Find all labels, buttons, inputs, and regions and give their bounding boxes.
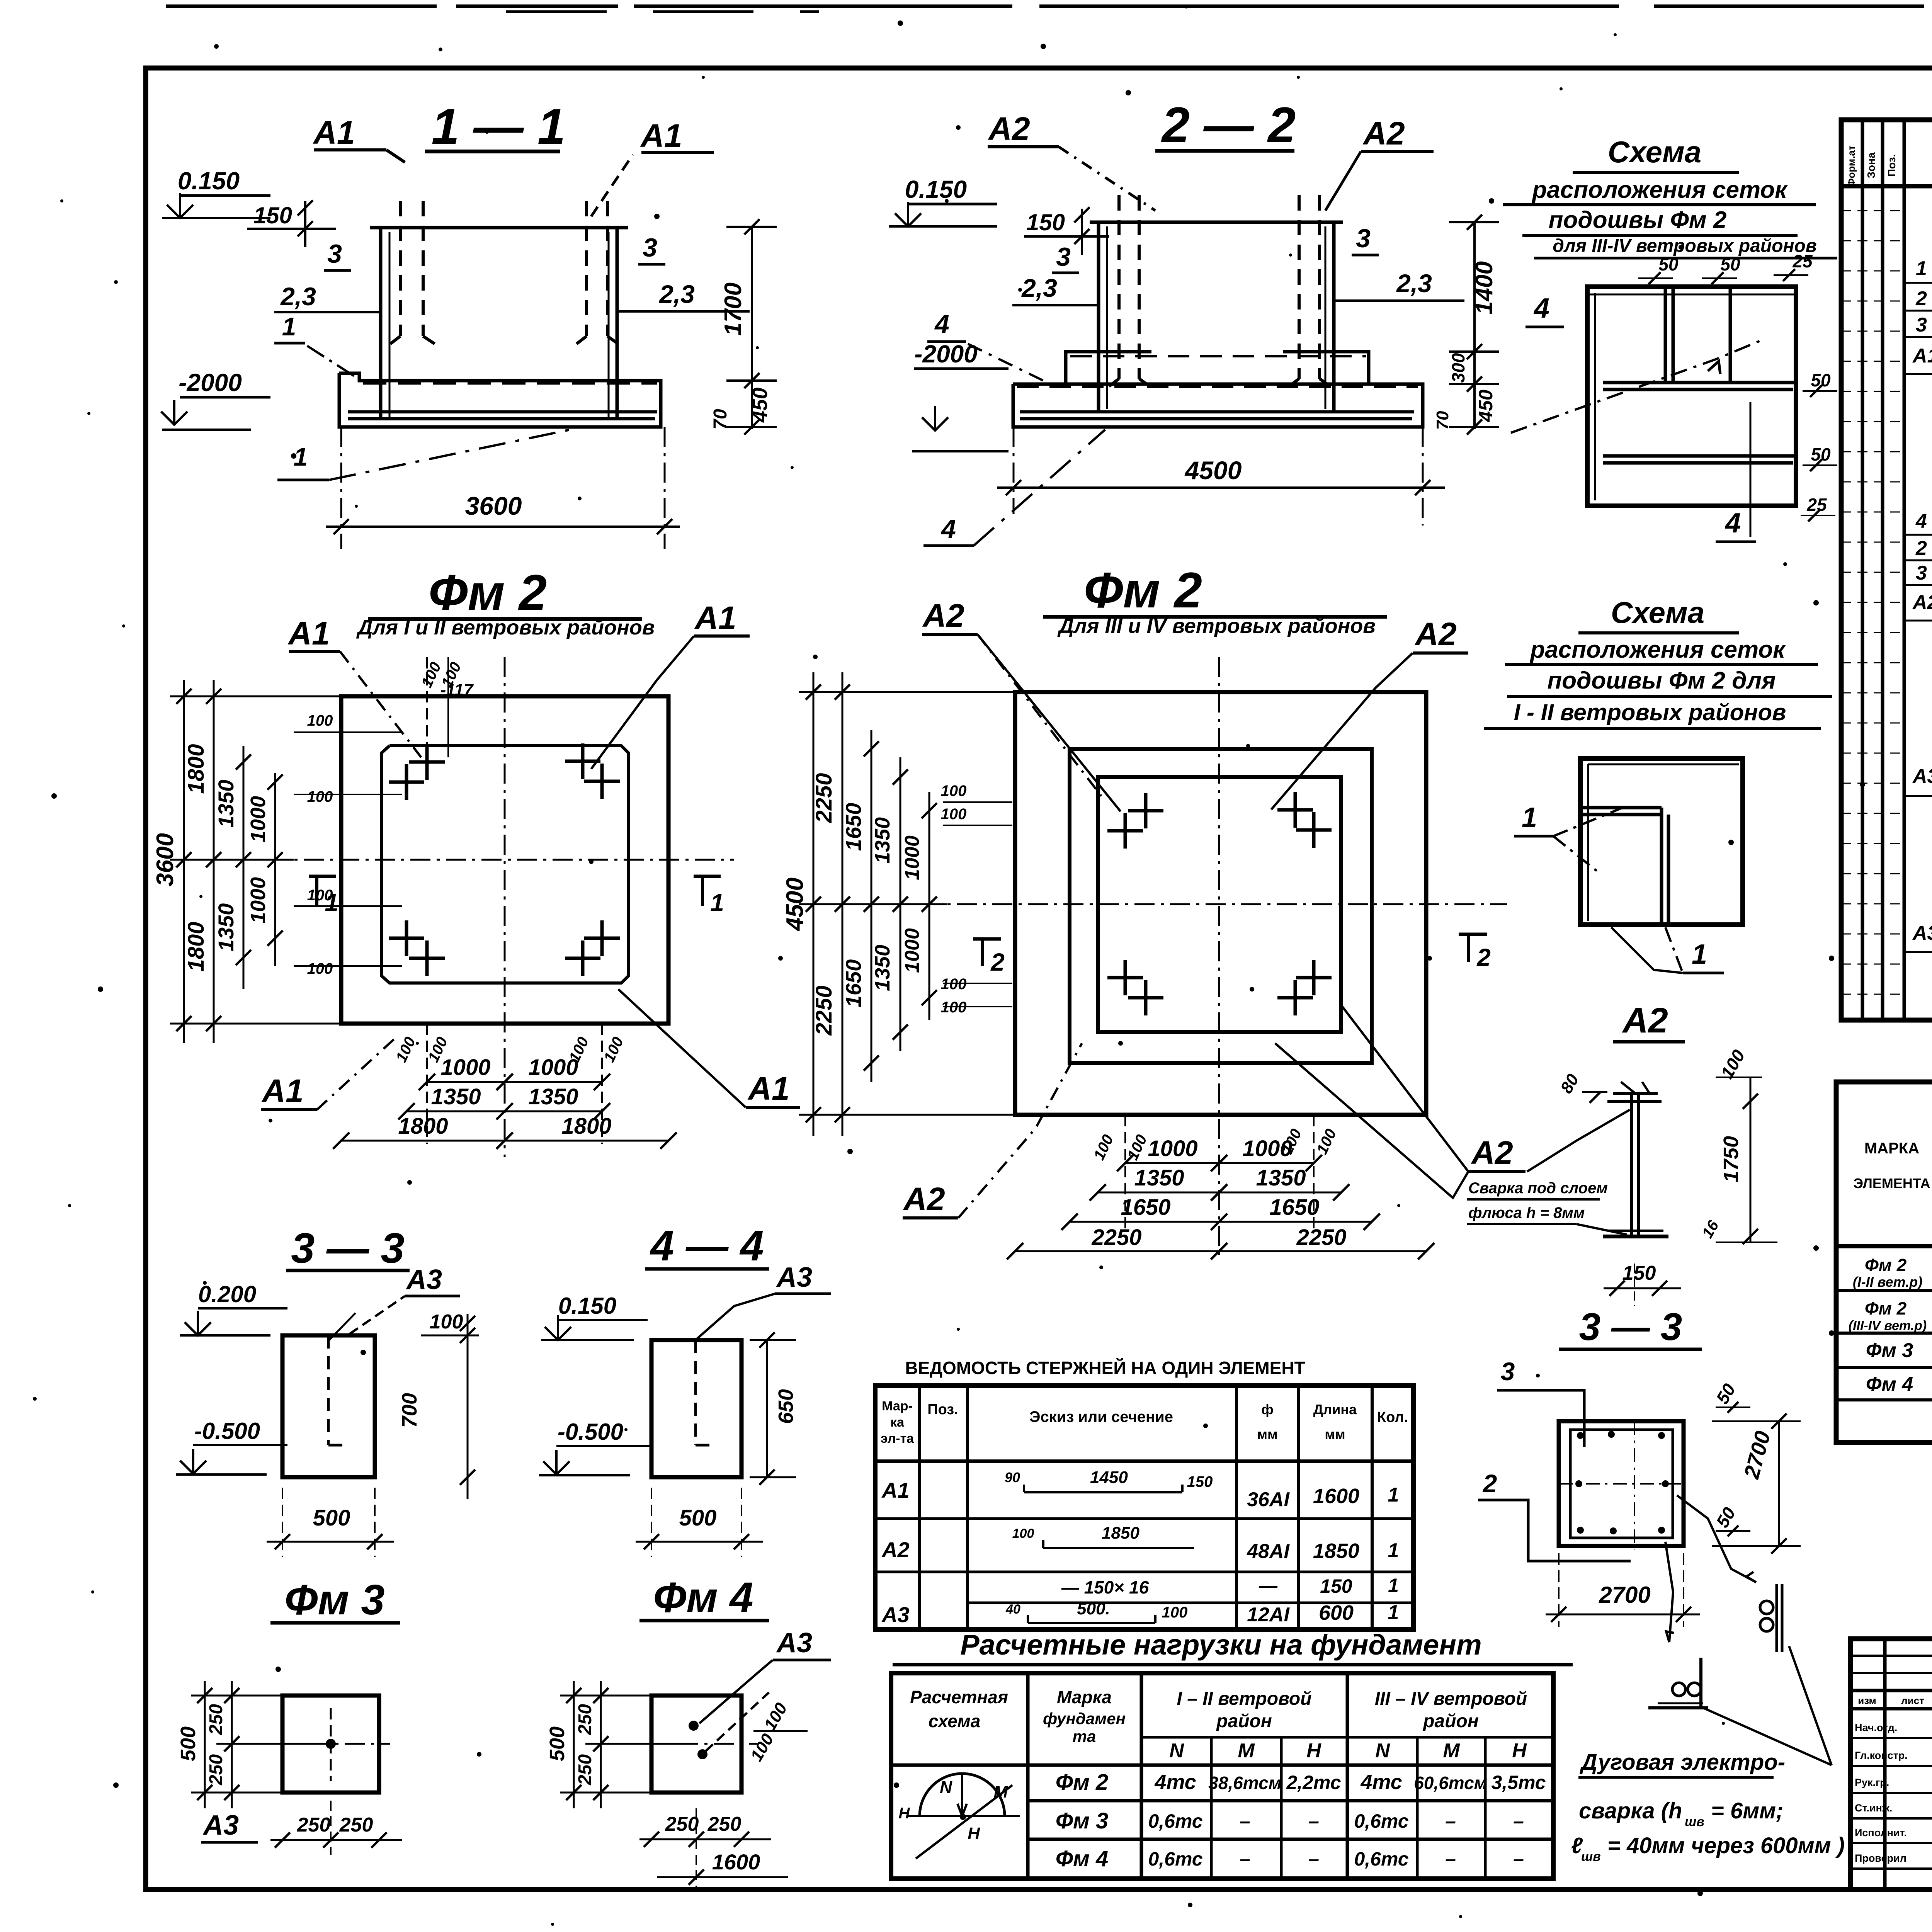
svg-text:700: 700 xyxy=(398,1393,421,1428)
svg-text:M: M xyxy=(1443,1740,1460,1762)
svg-text:500: 500 xyxy=(546,1726,569,1761)
svg-text:3600: 3600 xyxy=(465,492,522,520)
svg-text:250: 250 xyxy=(665,1813,699,1835)
spec table thin row lines xyxy=(1841,210,1904,211)
plan Fm2 III-IV left dim stack xyxy=(813,672,815,1136)
svg-text:2,2тс: 2,2тс xyxy=(1286,1772,1341,1793)
svg-text:2250: 2250 xyxy=(811,985,837,1036)
plan Fm2 I-II bolt crosses top-right xyxy=(565,760,600,763)
svg-text:1350: 1350 xyxy=(1256,1165,1306,1190)
svg-text:A1: A1 xyxy=(1912,345,1932,367)
svg-text:1000: 1000 xyxy=(901,835,923,880)
plan Fm2 III-IV inner square xyxy=(1098,777,1341,1032)
svg-text:1350: 1350 xyxy=(214,780,238,828)
svg-text:изм: изм xyxy=(1858,1695,1876,1706)
svg-text:район: район xyxy=(1422,1711,1479,1731)
svg-text:1350: 1350 xyxy=(214,903,238,952)
plan Fm4 center mark xyxy=(678,1743,757,1745)
section 4-4 dim 650 xyxy=(766,1340,768,1477)
svg-text:100: 100 xyxy=(941,806,967,823)
svg-text:Зона: Зона xyxy=(1865,152,1877,179)
svg-text:2250: 2250 xyxy=(811,773,837,823)
svg-text:H: H xyxy=(1512,1740,1527,1762)
svg-text:4: 4 xyxy=(940,514,956,544)
svg-text:4500: 4500 xyxy=(1184,456,1242,485)
svg-text:Схема: Схема xyxy=(1611,595,1704,629)
svg-text:3: 3 xyxy=(1356,224,1371,253)
svg-text:2: 2 xyxy=(1482,1469,1497,1498)
svg-text:подошвы Фм 2 для: подошвы Фм 2 для xyxy=(1547,667,1776,694)
svg-text:40: 40 xyxy=(1005,1602,1020,1617)
svg-text:250: 250 xyxy=(339,1814,373,1836)
svg-text:250: 250 xyxy=(297,1814,331,1836)
svg-text:3: 3 xyxy=(1916,314,1927,336)
svg-text:Расчетные нагрузки на фунда: Расчетные нагрузки на фундамент xyxy=(960,1629,1481,1661)
plan Fm2 I-II bolt crosses bottom-left xyxy=(389,937,424,940)
svg-text:1000: 1000 xyxy=(247,796,270,842)
svg-text:Мар-: Мар- xyxy=(882,1399,913,1413)
svg-text:для III-IV ветровых районов: для III-IV ветровых районов xyxy=(1553,236,1817,256)
svg-text:0,6тс: 0,6тс xyxy=(1148,1810,1202,1832)
svg-text:шв: шв xyxy=(1581,1849,1601,1864)
svg-text:1350: 1350 xyxy=(528,1084,578,1109)
svg-text:1650: 1650 xyxy=(1121,1195,1170,1220)
schema III-IV grid xyxy=(1587,287,1796,506)
section 2-2 footing hidden lines xyxy=(1070,355,1366,357)
svg-text:МАРКА: МАРКА xyxy=(1864,1140,1919,1157)
section 2-2 anchor bolts dashed right xyxy=(1298,195,1301,379)
svg-text:Фм 2: Фм 2 xyxy=(1084,562,1202,618)
svg-text:A2: A2 xyxy=(1622,1001,1668,1040)
svg-text:1600: 1600 xyxy=(1313,1485,1359,1508)
svg-text:Сварка под слоем: Сварка под слоем xyxy=(1468,1180,1608,1197)
svg-text:250: 250 xyxy=(206,1754,226,1786)
svg-text:1000: 1000 xyxy=(1148,1136,1197,1161)
svg-text:1: 1 xyxy=(1692,939,1707,970)
svg-text:фундамен: фундамен xyxy=(1043,1709,1126,1728)
svg-text:A3: A3 xyxy=(1912,922,1932,944)
svg-text:150: 150 xyxy=(253,202,292,228)
plan Fm2 I-II section mark 1 left xyxy=(309,875,336,878)
svg-text:A1: A1 xyxy=(287,615,330,651)
section 1-1 footing xyxy=(339,373,661,427)
svg-text:A3: A3 xyxy=(1912,765,1932,787)
svg-text:1: 1 xyxy=(1388,1601,1399,1624)
svg-text:1450: 1450 xyxy=(1090,1468,1128,1487)
detail 3-3 right dims 50 2700 50 xyxy=(1778,1421,1780,1546)
svg-text:2: 2 xyxy=(1915,287,1927,310)
svg-text:1350: 1350 xyxy=(871,817,894,864)
plan Fm3 center mark xyxy=(309,1743,390,1745)
svg-text:1800: 1800 xyxy=(184,744,209,794)
svg-text:ВЕДОМОСТЬ СТЕРЖНЕЙ НА ОДИН ЭЛЕ: ВЕДОМОСТЬ СТЕРЖНЕЙ НА ОДИН ЭЛЕМЕНТ xyxy=(905,1358,1305,1378)
detail A2 dim 1750 xyxy=(1750,1077,1752,1242)
section 3-3 rect xyxy=(282,1335,375,1477)
detail 3-3 square inner xyxy=(1570,1430,1673,1538)
svg-text:Поз.: Поз. xyxy=(927,1401,958,1418)
svg-text:Фм 4: Фм 4 xyxy=(1056,1846,1109,1871)
svg-text:-0.500: -0.500 xyxy=(194,1418,260,1444)
svg-text:A2: A2 xyxy=(1414,616,1456,652)
svg-text:2,3: 2,3 xyxy=(658,280,695,308)
svg-text:250: 250 xyxy=(575,1704,595,1735)
loads table grid xyxy=(891,1673,1553,1879)
svg-text:Рук.гр.: Рук.гр. xyxy=(1855,1777,1889,1788)
svg-text:ЭЛЕМЕНТА: ЭЛЕМЕНТА xyxy=(1853,1175,1930,1191)
svg-text:подошвы Фм 2: подошвы Фм 2 xyxy=(1549,207,1727,233)
svg-text:4: 4 xyxy=(934,310,949,339)
svg-text:A1: A1 xyxy=(313,114,355,151)
svg-text:мм: мм xyxy=(1257,1426,1277,1442)
svg-text:2,3: 2,3 xyxy=(1396,269,1432,298)
svg-text:расположения сеток: расположения сеток xyxy=(1531,177,1788,203)
svg-text:1000: 1000 xyxy=(247,877,270,923)
schema I-II grid xyxy=(1580,759,1743,925)
svg-text:Дуговая электро-: Дуговая электро- xyxy=(1579,1750,1785,1775)
plan Fm2 III-IV bolt crosses xyxy=(1128,809,1163,813)
detail A2 leader from plan label to beam xyxy=(1527,1110,1630,1172)
svg-text:A3: A3 xyxy=(406,1264,442,1295)
spec table outer grid xyxy=(1841,120,1932,1020)
svg-text:N: N xyxy=(1169,1740,1184,1762)
svg-text:50: 50 xyxy=(1720,254,1740,274)
svg-text:Кол.: Кол. xyxy=(1377,1409,1408,1425)
svg-text:0,6тс: 0,6тс xyxy=(1354,1848,1408,1870)
section 1-1 pedestal xyxy=(379,228,383,419)
svg-text:I - II ветровых районов: I - II ветровых районов xyxy=(1514,699,1786,725)
svg-text:A3: A3 xyxy=(881,1602,910,1627)
svg-text:500: 500 xyxy=(177,1726,200,1761)
plan Fm2 I-II section mark 1 right xyxy=(694,875,721,878)
svg-text:500.: 500. xyxy=(1077,1599,1110,1618)
weld detail arrow 2 xyxy=(1665,1542,1673,1642)
schema III-IV leader dashdot xyxy=(1511,340,1762,433)
plan Fm4 left dims xyxy=(573,1681,575,1808)
svg-text:300: 300 xyxy=(1448,353,1468,383)
svg-text:100: 100 xyxy=(1162,1604,1188,1621)
svg-text:схема: схема xyxy=(929,1711,981,1731)
weld pointer lines xyxy=(1703,1708,1832,1765)
svg-text:Проверил: Проверил xyxy=(1855,1852,1906,1864)
section 2-2 footing two tiers xyxy=(1066,352,1151,384)
plan Fm2 I-II outer square xyxy=(341,696,668,1024)
svg-text:A1: A1 xyxy=(747,1070,789,1107)
svg-text:Форм.ат: Форм.ат xyxy=(1845,145,1857,187)
svg-text:A3: A3 xyxy=(776,1262,812,1293)
svg-text:2250: 2250 xyxy=(1296,1225,1346,1250)
svg-text:1350: 1350 xyxy=(1134,1165,1184,1190)
plan Fm2 I-II bottom dims xyxy=(426,1024,428,1144)
svg-text:-2000: -2000 xyxy=(914,340,978,368)
svg-text:1650: 1650 xyxy=(841,959,866,1008)
svg-text:ф: ф xyxy=(1261,1401,1274,1417)
section 1-1 bottom dim 3600 xyxy=(340,427,342,549)
section 1-1 footing hidden top line xyxy=(363,382,657,385)
plan Fm4 square xyxy=(651,1696,742,1793)
svg-text:1600: 1600 xyxy=(712,1850,760,1874)
plan Fm2 I-II bolt crosses bottom-right xyxy=(565,957,600,960)
plan Fm2 III-IV section mark 2 left xyxy=(973,937,1001,941)
plan Fm2 III-IV outer square xyxy=(1015,692,1426,1115)
section 1-1 anchor bolts dashed right xyxy=(585,201,588,336)
svg-text:лист: лист xyxy=(1901,1695,1924,1706)
svg-text:флюса h = 8мм: флюса h = 8мм xyxy=(1468,1204,1585,1221)
svg-text:Фм 2: Фм 2 xyxy=(429,564,547,621)
svg-text:1: 1 xyxy=(1388,1484,1399,1506)
svg-text:Фм 2: Фм 2 xyxy=(1056,1770,1109,1795)
svg-text:A2: A2 xyxy=(922,597,964,634)
weld detail arrow from square xyxy=(1677,1495,1756,1582)
svg-text:100: 100 xyxy=(307,887,333,904)
svg-text:мм: мм xyxy=(1325,1426,1345,1442)
svg-text:2 — 2: 2 — 2 xyxy=(1161,97,1296,153)
svg-text:12AІ: 12AІ xyxy=(1247,1604,1290,1626)
title block outer xyxy=(1850,1639,1932,1889)
svg-text:2250: 2250 xyxy=(1091,1225,1141,1250)
svg-text:1850: 1850 xyxy=(1102,1524,1139,1543)
svg-text:A1: A1 xyxy=(261,1073,303,1109)
weld detail corner angle with circles xyxy=(1648,1706,1708,1709)
section 3-3 bolt dashed xyxy=(327,1335,330,1445)
svg-text:90: 90 xyxy=(1005,1469,1020,1485)
svg-text:1750: 1750 xyxy=(1719,1136,1743,1182)
detail 3-3 inner center lines xyxy=(1559,1483,1685,1485)
svg-text:1350: 1350 xyxy=(431,1084,481,1109)
svg-text:250: 250 xyxy=(575,1754,595,1786)
svg-text:650: 650 xyxy=(774,1389,798,1424)
plan Fm2 I-II left dim stack xyxy=(183,680,185,1043)
svg-text:1000: 1000 xyxy=(440,1055,490,1080)
svg-text:0,6тс: 0,6тс xyxy=(1148,1848,1202,1870)
svg-text:2: 2 xyxy=(1476,944,1491,971)
detail 3-3 rebar dots xyxy=(1577,1432,1584,1439)
section 2-2 anchor bolts dashed left xyxy=(1117,195,1121,379)
svg-text:0.200: 0.200 xyxy=(198,1281,256,1307)
svg-text:1: 1 xyxy=(1916,257,1927,280)
svg-text:3,5тс: 3,5тс xyxy=(1491,1772,1546,1793)
svg-text:—: — xyxy=(1259,1576,1278,1596)
plan Fm3 square xyxy=(282,1696,379,1793)
svg-text:1000: 1000 xyxy=(1242,1136,1292,1161)
svg-text:Эскиз или сечение: Эскиз или сечение xyxy=(1029,1408,1173,1425)
svg-text:1: 1 xyxy=(710,889,724,917)
plan Fm2 I-II bolt crosses top-left xyxy=(409,760,445,764)
svg-text:1700: 1700 xyxy=(720,282,747,336)
svg-text:1000: 1000 xyxy=(901,928,923,973)
schema I-II internal lines xyxy=(1580,806,1662,810)
svg-text:0.150: 0.150 xyxy=(905,175,967,203)
svg-text:150: 150 xyxy=(1320,1575,1352,1597)
svg-text:100: 100 xyxy=(941,782,967,799)
svg-text:50: 50 xyxy=(1658,254,1679,274)
svg-text:–: – xyxy=(1240,1848,1250,1870)
svg-text:1800: 1800 xyxy=(398,1114,448,1139)
svg-text:Фм 3: Фм 3 xyxy=(1866,1339,1913,1362)
svg-text:1800: 1800 xyxy=(561,1114,611,1139)
svg-text:H: H xyxy=(1306,1740,1321,1762)
svg-text:Поз.: Поз. xyxy=(1886,154,1898,177)
svg-text:1800: 1800 xyxy=(184,922,209,971)
svg-text:H: H xyxy=(968,1824,980,1843)
svg-text:1: 1 xyxy=(1522,802,1537,833)
svg-text:3: 3 xyxy=(327,239,342,269)
svg-text:500: 500 xyxy=(679,1505,717,1531)
loads table scheme sketch xyxy=(920,1774,1005,1816)
svg-text:2: 2 xyxy=(1915,537,1927,560)
svg-text:III – IV ветровой: III – IV ветровой xyxy=(1375,1689,1527,1709)
table rod list grid xyxy=(875,1386,1413,1629)
plan Fm3 left dims xyxy=(204,1681,206,1808)
svg-text:25: 25 xyxy=(1792,251,1813,271)
svg-text:та: та xyxy=(1073,1727,1096,1745)
svg-text:100: 100 xyxy=(430,1311,463,1333)
svg-text:Ст.инж.: Ст.инж. xyxy=(1855,1802,1892,1814)
svg-text:Марка: Марка xyxy=(1057,1687,1112,1707)
svg-text:–: – xyxy=(1513,1848,1524,1870)
svg-text:1: 1 xyxy=(1388,1539,1399,1562)
svg-text:-117: -117 xyxy=(440,680,474,699)
svg-text:3 — 3: 3 — 3 xyxy=(1579,1305,1682,1349)
svg-text:100: 100 xyxy=(307,788,333,805)
svg-text:A2: A2 xyxy=(881,1537,910,1562)
plan Fm2 III-IV bottom dims xyxy=(1124,1115,1126,1229)
svg-text:48AІ: 48AІ xyxy=(1247,1540,1290,1563)
svg-text:= 6мм;: = 6мм; xyxy=(1711,1798,1783,1823)
steel table outer xyxy=(1836,1082,1932,1442)
svg-text:-0.500: -0.500 xyxy=(558,1419,623,1445)
svg-text:3 — 3: 3 — 3 xyxy=(291,1225,404,1272)
svg-text:A2: A2 xyxy=(1362,115,1405,151)
svg-text:район: район xyxy=(1216,1711,1272,1731)
svg-text:Нач.отд.: Нач.отд. xyxy=(1855,1722,1897,1733)
plan Fm2 III-IV center lines xyxy=(850,903,1507,905)
svg-text:I – II ветровой: I – II ветровой xyxy=(1177,1689,1312,1709)
weld detail right plate with circles xyxy=(1776,1584,1778,1652)
svg-text:эл-та: эл-та xyxy=(881,1431,915,1446)
svg-text:Фм 3: Фм 3 xyxy=(285,1576,385,1624)
detail A2 beam web xyxy=(1630,1093,1633,1236)
svg-text:1000: 1000 xyxy=(528,1055,578,1080)
section 2-2 right dims 1400 300 450 70 xyxy=(1473,222,1476,429)
svg-text:–: – xyxy=(1240,1810,1250,1832)
svg-text:Фм 2: Фм 2 xyxy=(1865,1255,1907,1275)
scan speckle dots xyxy=(214,44,219,49)
svg-text:сварка (h: сварка (h xyxy=(1579,1798,1682,1823)
section 1-1 anchor bolts dashed left xyxy=(399,201,402,336)
svg-text:150: 150 xyxy=(1622,1262,1656,1284)
svg-text:3: 3 xyxy=(643,233,657,262)
section 2-2 pedestal xyxy=(1097,222,1100,410)
svg-text:1650: 1650 xyxy=(841,803,866,851)
svg-text:–: – xyxy=(1308,1848,1319,1870)
svg-text:Схема: Схема xyxy=(1608,135,1701,169)
svg-text:A1: A1 xyxy=(640,117,682,154)
svg-text:250: 250 xyxy=(707,1813,742,1835)
svg-text:Фм 4: Фм 4 xyxy=(1866,1373,1913,1396)
svg-text:ка: ка xyxy=(890,1415,905,1430)
svg-text:3: 3 xyxy=(1056,242,1071,272)
svg-text:1650: 1650 xyxy=(1269,1195,1319,1220)
svg-text:A1: A1 xyxy=(881,1478,910,1502)
svg-text:100: 100 xyxy=(307,960,333,977)
svg-text:–: – xyxy=(1445,1848,1456,1870)
plan Fm2 I-II center lines xyxy=(197,859,734,861)
plan Fm2 III-IV section mark 2 right xyxy=(1459,933,1487,936)
svg-text:2,3: 2,3 xyxy=(1021,274,1057,302)
svg-text:70: 70 xyxy=(710,409,731,430)
svg-text:2,3: 2,3 xyxy=(280,282,316,311)
title block left columns xyxy=(1883,1639,1887,1889)
svg-text:1 — 1: 1 — 1 xyxy=(432,98,566,155)
svg-text:0.150: 0.150 xyxy=(178,167,240,195)
svg-text:2700: 2700 xyxy=(1599,1582,1650,1608)
section 2-2 bottom dim 4500 xyxy=(1013,427,1015,514)
svg-text:Фм 4: Фм 4 xyxy=(653,1574,753,1621)
svg-text:500: 500 xyxy=(313,1505,350,1531)
section 2-2 footing bottom mesh xyxy=(1020,410,1414,413)
schema III-IV internal mesh lines xyxy=(1664,287,1667,383)
svg-text:4тс: 4тс xyxy=(1154,1770,1196,1794)
section 1-1 right dims 1700 450 70 xyxy=(751,227,753,429)
svg-text:1: 1 xyxy=(282,312,296,341)
plan Fm2 III-IV middle square xyxy=(1070,749,1372,1063)
svg-text:150: 150 xyxy=(1026,209,1065,235)
svg-text:–: – xyxy=(1445,1810,1456,1832)
svg-text:4: 4 xyxy=(1725,508,1741,539)
svg-text:= 40мм через 600мм ): = 40мм через 600мм ) xyxy=(1607,1833,1845,1858)
svg-text:4 — 4: 4 — 4 xyxy=(650,1222,764,1270)
scan top edge line xyxy=(166,5,1932,8)
svg-text:0,6тс: 0,6тс xyxy=(1354,1810,1408,1832)
svg-text:A2: A2 xyxy=(1912,591,1932,614)
svg-text:600: 600 xyxy=(1319,1601,1354,1624)
svg-text:A2: A2 xyxy=(903,1181,945,1217)
section 1-1 footing bottom mesh xyxy=(348,410,657,413)
svg-text:A3: A3 xyxy=(776,1628,812,1658)
svg-text:H: H xyxy=(899,1805,910,1822)
svg-text:Расчетная: Расчетная xyxy=(910,1687,1008,1707)
svg-text:1: 1 xyxy=(1388,1575,1399,1596)
svg-text:1350: 1350 xyxy=(871,945,894,991)
section 4-4 bolt dashed xyxy=(694,1340,697,1445)
svg-text:250: 250 xyxy=(206,1704,226,1735)
svg-text:–: – xyxy=(1513,1810,1524,1832)
svg-text:70: 70 xyxy=(1433,411,1452,430)
svg-text:A2: A2 xyxy=(988,111,1030,147)
svg-text:Для III и IV ветровых районов: Для III и IV ветровых районов xyxy=(1057,614,1376,638)
svg-text:38,6тсм: 38,6тсм xyxy=(1208,1773,1281,1793)
svg-text:A1: A1 xyxy=(694,600,736,636)
svg-text:Фм 2: Фм 2 xyxy=(1865,1298,1907,1318)
section 1-1 leader to A1 right xyxy=(591,155,633,216)
svg-text:3: 3 xyxy=(1501,1357,1515,1386)
svg-text:Длина: Длина xyxy=(1313,1401,1357,1417)
svg-text:1400: 1400 xyxy=(1471,261,1498,315)
svg-text:100: 100 xyxy=(1012,1526,1034,1541)
svg-text:Фм 3: Фм 3 xyxy=(1056,1808,1109,1833)
svg-text:3: 3 xyxy=(1916,562,1927,584)
svg-text:M: M xyxy=(994,1782,1009,1801)
svg-text:60,6тсм: 60,6тсм xyxy=(1414,1773,1487,1793)
svg-text:Для I и II ветровых районов: Для I и II ветровых районов xyxy=(356,616,655,639)
svg-text:Исполнит.: Исполнит. xyxy=(1855,1827,1907,1838)
svg-text:–: – xyxy=(1308,1810,1319,1832)
svg-text:Гл.констр.: Гл.констр. xyxy=(1855,1750,1908,1761)
section 4-4 rect xyxy=(651,1340,742,1477)
svg-text:(I-II вет.р): (I-II вет.р) xyxy=(1853,1274,1922,1290)
svg-text:4тс: 4тс xyxy=(1360,1770,1402,1794)
svg-text:-2000: -2000 xyxy=(179,369,242,396)
